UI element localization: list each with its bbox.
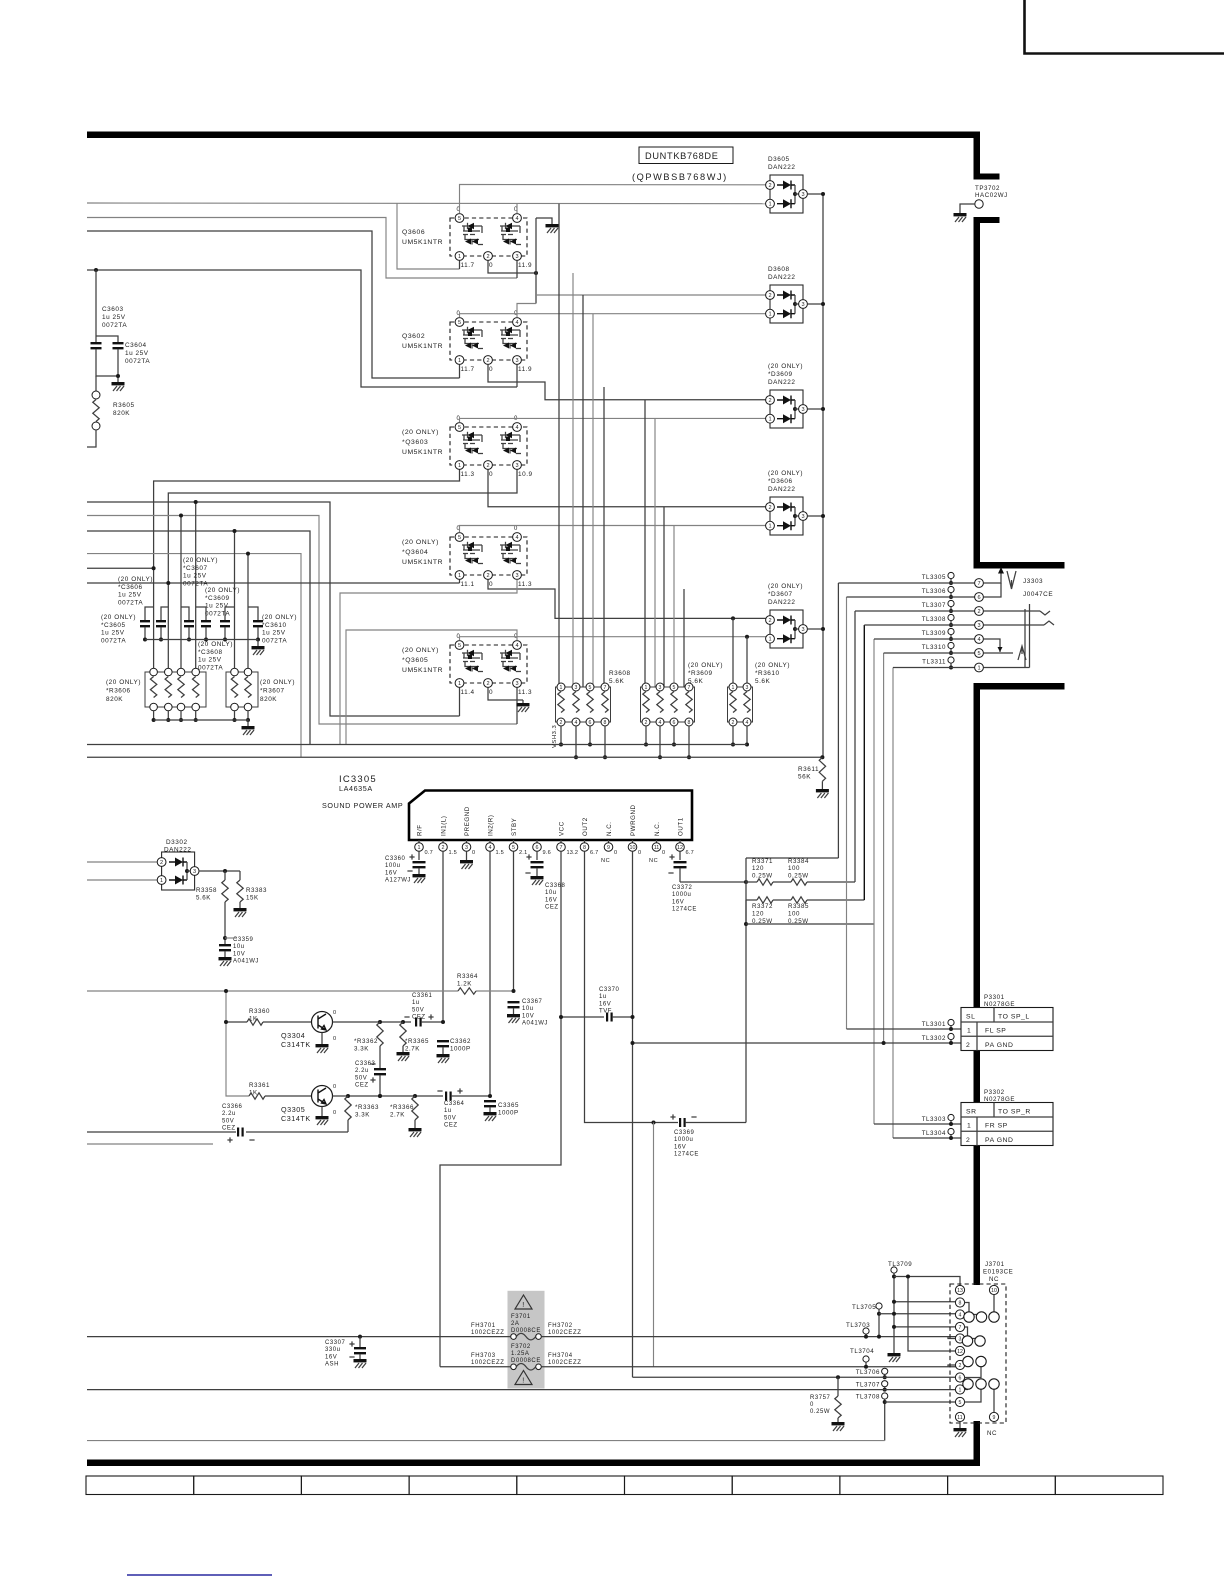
svg-text:TL3305: TL3305 [922,574,946,581]
svg-text:TL3303: TL3303 [922,1116,946,1123]
svg-text:4: 4 [746,720,749,726]
wire mid H [87,554,301,758]
svg-text:1: 1 [458,254,461,260]
svg-text:J0047CE: J0047CE [1023,591,1053,598]
fuse panel background [508,1291,545,1389]
svg-text:TL3707: TL3707 [856,1381,880,1388]
svg-text:50V: 50V [412,1007,424,1013]
svg-text:330u: 330u [325,1347,341,1353]
ground IC pin3 PREGND [466,851,468,860]
svg-text:DAN222: DAN222 [768,379,795,386]
svg-text:2: 2 [560,720,563,726]
svg-text:UM5K1NTR: UM5K1NTR [402,343,443,350]
svg-text:PA GND: PA GND [985,1042,1013,1049]
wire Q3606 pin1 down [459,261,461,270]
svg-text:FH3703: FH3703 [471,1353,496,1359]
svg-text:R3384: R3384 [788,858,809,865]
svg-text:5: 5 [512,845,515,851]
svg-text:CEZ: CEZ [545,905,559,911]
svg-text:2: 2 [645,720,648,726]
svg-text:2.2u: 2.2u [355,1068,369,1074]
svg-text:820K: 820K [113,410,130,417]
capacitor C3368 [536,851,538,860]
svg-text:1: 1 [458,573,461,579]
wire array pin down x=646 [645,726,647,745]
svg-text:*C3608: *C3608 [198,649,223,656]
svg-text:3: 3 [193,869,196,875]
svg-text:TL3708: TL3708 [856,1394,880,1401]
wire OUT1 node [680,881,746,883]
svg-text:0072TA: 0072TA [205,610,230,617]
wire to J3701 pin8 [894,1301,956,1303]
svg-text:3: 3 [801,192,804,198]
svg-text:UM5K1NTR: UM5K1NTR [402,667,443,674]
svg-text:8: 8 [688,720,691,726]
wire to J3303 pin 7 [838,582,974,584]
svg-text:C3365: C3365 [498,1102,519,1109]
svg-text:TP3702: TP3702 [975,185,1000,192]
wire to J3701 pin4 [879,1313,956,1315]
wire net D [87,270,517,387]
svg-text:C3307: C3307 [325,1340,346,1346]
capacitor cluster cap 1 [145,607,154,620]
footer blue rule [127,1574,272,1576]
wire C3603 branch [95,270,97,342]
J3701 pin 5 [955,1397,964,1406]
wire to J3303 pin 2 [855,610,975,612]
wire to J3303 pin 6 [847,596,975,598]
wire P3301 pin2 PA GND [633,1042,962,1044]
svg-text:FH3702: FH3702 [548,1323,573,1329]
J3701 pin 10 [989,1285,998,1294]
svg-text:1: 1 [732,685,735,691]
svg-text:2: 2 [966,1042,970,1049]
svg-text:0: 0 [514,416,518,422]
svg-text:1000u: 1000u [674,1137,693,1143]
svg-text:4: 4 [515,425,518,431]
svg-text:5: 5 [458,535,461,541]
svg-text:*D3606: *D3606 [768,478,793,485]
ground Q3606 right [546,224,559,227]
wire to J3701 pin13 [894,1277,960,1286]
svg-text:*R3609: *R3609 [688,670,713,677]
svg-text:10.9: 10.9 [518,471,533,478]
svg-text:6: 6 [589,720,592,726]
svg-text:(20 ONLY): (20 ONLY) [755,662,790,669]
wire D pin3 to bus at y=194 [807,193,823,195]
svg-text:OUT2: OUT2 [582,817,589,836]
svg-text:5: 5 [589,685,592,691]
svg-text:*D3607: *D3607 [768,591,793,598]
svg-text:9: 9 [993,1415,996,1421]
border thick bottom bar [87,1460,980,1467]
svg-text:1u 25V: 1u 25V [198,657,222,664]
wire Q3603 pin5 up to D3609 pin1 [460,418,771,422]
svg-text:*Q3604: *Q3604 [402,549,428,556]
J3701 pin 12 [955,1346,964,1355]
diode D3608 [766,266,808,323]
svg-text:5: 5 [458,425,461,431]
svg-text:3: 3 [801,627,804,633]
svg-text:ASH: ASH [325,1362,339,1368]
svg-text:SOUND POWER AMP: SOUND POWER AMP [322,801,403,810]
wire Q3304 collector row [333,1021,412,1023]
svg-text:2: 2 [732,720,735,726]
border top-right corner box [1025,0,1224,54]
svg-text:*R3365: *R3365 [405,1038,429,1045]
svg-text:0072TA: 0072TA [118,599,143,606]
svg-text:16V: 16V [672,899,684,905]
svg-text:2A: 2A [511,1321,519,1327]
svg-text:C314TK: C314TK [281,1114,311,1123]
J3701 pin 7 [955,1322,964,1331]
svg-text:NC: NC [989,1276,999,1283]
wire Q3304 base row [225,991,227,1022]
svg-text:15K: 15K [246,894,259,901]
svg-text:1: 1 [768,637,771,643]
svg-text:2.7K: 2.7K [405,1045,420,1052]
svg-text:*Q3603: *Q3603 [402,439,428,446]
svg-text:C3361: C3361 [412,993,433,999]
svg-text:0072TA: 0072TA [102,322,127,329]
wire IC pin10 PWRGND down [632,851,634,1377]
svg-text:2: 2 [486,358,489,364]
svg-text:R/F: R/F [417,824,424,836]
wire IC pin5 down [513,851,515,991]
capacitor cluster cap 4 [196,607,206,620]
svg-text:DAN222: DAN222 [768,599,795,606]
svg-text:2: 2 [768,398,771,404]
svg-text:50V: 50V [222,1118,234,1124]
svg-text:0072TA: 0072TA [101,637,126,644]
svg-text:(20 ONLY): (20 ONLY) [262,614,297,621]
svg-text:R3757: R3757 [810,1395,831,1401]
svg-text:(20 ONLY): (20 ONLY) [118,576,153,583]
svg-text:(20 ONLY): (20 ONLY) [205,587,240,594]
connector J3701 [950,1261,1013,1437]
svg-text:Q3602: Q3602 [402,333,425,340]
svg-text:UM5K1NTR: UM5K1NTR [402,559,443,566]
svg-text:2: 2 [768,183,771,189]
wire Q3605 pin4 up left [346,630,517,745]
capacitor cluster cap 3 [181,607,189,620]
svg-text:11: 11 [957,1415,962,1421]
svg-text:*C3609: *C3609 [205,595,230,602]
svg-text:12: 12 [677,845,683,851]
svg-text:0: 0 [514,526,518,532]
svg-text:P3301: P3301 [984,994,1005,1001]
border thick right bar upper [974,132,981,180]
svg-text:0072TA: 0072TA [198,664,223,671]
diode D3607 [766,583,808,648]
svg-text:4: 4 [575,720,578,726]
svg-text:1: 1 [418,845,421,851]
wire IC pin2 down [442,851,444,1022]
J3701 pin 1 [955,1385,964,1394]
svg-text:(20 ONLY): (20 ONLY) [402,539,439,546]
svg-text:SL: SL [966,1014,975,1021]
svg-text:C314TK: C314TK [281,1040,311,1049]
svg-text:(20 ONLY): (20 ONLY) [768,470,803,477]
svg-text:C3362: C3362 [450,1038,471,1045]
svg-text:A041WJ: A041WJ [522,1021,548,1027]
svg-text:*R3607: *R3607 [260,688,285,695]
svg-text:2: 2 [486,254,489,260]
wire bundle v6 [883,653,885,1043]
svg-text:2: 2 [966,1137,970,1144]
wire D pin3 to bus at y=516 [807,515,823,517]
svg-text:HAC02WJ: HAC02WJ [975,192,1008,199]
svg-text:11.7: 11.7 [461,366,475,373]
svg-text:16V: 16V [325,1354,337,1360]
svg-text:VSH3.3: VSH3.3 [552,725,558,748]
svg-text:D3605: D3605 [768,156,790,163]
ground R3611 [816,789,829,792]
svg-text:C3360: C3360 [385,856,406,862]
wire lower-left rail 1 [87,1131,236,1133]
wire TL3707 row (long) to pin1 [87,1389,956,1391]
J3701 pin 4 [955,1310,964,1319]
svg-text:5: 5 [977,651,980,657]
svg-text:10u: 10u [522,1006,534,1012]
svg-text:Q3305: Q3305 [281,1105,305,1114]
wire to J3701 pin7 [894,1326,956,1328]
svg-text:CEZ: CEZ [444,1123,458,1129]
svg-text:10V: 10V [233,951,245,957]
wire mid F [87,516,517,725]
svg-text:1000P: 1000P [450,1045,471,1052]
wire bundle v7 [892,668,894,1139]
svg-text:4: 4 [977,637,980,643]
svg-text:5: 5 [959,1400,962,1406]
svg-text:3: 3 [515,463,518,469]
svg-text:5: 5 [673,685,676,691]
svg-text:820K: 820K [260,696,277,703]
wire to J3303 pin 1 [893,667,975,669]
J3701 pin 6 [955,1373,964,1382]
J3303 jack body [1025,604,1030,668]
wire Q3602 pin3 down [516,365,518,388]
svg-text:J3303: J3303 [1023,578,1043,585]
svg-text:C3603: C3603 [102,306,124,313]
svg-text:DAN222: DAN222 [768,274,795,281]
J3701 pin 3 [955,1334,964,1343]
svg-text:*R3610: *R3610 [755,670,780,677]
svg-text:R3611: R3611 [798,766,819,773]
svg-text:50V: 50V [355,1075,367,1081]
svg-text:C3366: C3366 [222,1104,243,1110]
wire IC pin7 VCC down [440,851,561,1367]
svg-text:3: 3 [515,681,518,687]
svg-text:0: 0 [472,850,475,856]
svg-text:1.5: 1.5 [449,850,457,856]
wire TL3706 row to pin6 [633,1376,956,1378]
svg-text:5: 5 [458,643,461,649]
svg-text:1002CEZZ: 1002CEZZ [471,1360,504,1366]
wire fuse rail 2 [440,1366,511,1368]
warning triangle top [515,1295,532,1309]
svg-text:12: 12 [957,1349,963,1355]
svg-text:2.2u: 2.2u [222,1111,236,1117]
wire mid G [87,531,310,745]
svg-text:N.C.: N.C. [654,821,661,836]
svg-text:D3608: D3608 [768,266,790,273]
title box DUNTKB768DE [639,147,733,164]
svg-text:0: 0 [614,850,617,856]
svg-text:10u: 10u [545,890,557,896]
svg-text:Q3606: Q3606 [402,229,425,236]
wire Q3603 pin3 long left [168,465,517,672]
svg-text:8: 8 [604,720,607,726]
wire to D3608 pin2 [536,294,770,296]
wire Q3604 pin5 up to D3606 pin1 [460,526,771,533]
svg-text:R3608: R3608 [609,670,631,677]
svg-text:1002CEZZ: 1002CEZZ [548,1330,581,1336]
svg-text:5.6K: 5.6K [196,894,211,901]
svg-text:IN1(L): IN1(L) [441,816,448,837]
wire to J3303 pin 3 [864,624,974,626]
svg-text:0.25W: 0.25W [788,872,809,879]
svg-text:(20 ONLY): (20 ONLY) [402,429,439,436]
svg-text:0: 0 [489,366,493,373]
wire mid E [87,502,460,716]
svg-text:1.2K: 1.2K [457,980,472,987]
wire Q3604 pin3 down left [340,580,517,745]
svg-text:1: 1 [967,1123,971,1130]
wire R3372 left node [745,900,747,924]
svg-text:UM5K1NTR: UM5K1NTR [402,239,443,246]
svg-text:(20 ONLY): (20 ONLY) [260,679,295,686]
svg-text:5.6K: 5.6K [755,678,771,685]
svg-text:7: 7 [959,1325,962,1331]
svg-text:TL3304: TL3304 [922,1130,946,1137]
svg-text:R3371: R3371 [752,858,773,865]
svg-text:2: 2 [160,860,163,866]
border thick right bar segment 2 [974,217,1000,223]
wire array pin down x=576 [575,726,577,757]
svg-text:PWRGND: PWRGND [630,805,637,837]
svg-text:0: 0 [489,471,493,478]
wire Q3606 pin4 up [516,204,518,214]
svg-text:DAN222: DAN222 [768,164,795,171]
svg-text:NC: NC [601,858,610,864]
wire array pin down x=674 [673,726,675,745]
wire Q3605 pin2 down [488,688,523,701]
svg-text:1002CEZZ: 1002CEZZ [548,1360,581,1366]
transistor Q3605 [402,634,532,696]
svg-text:2: 2 [768,618,771,624]
wire P3302 pin1 [874,1123,961,1125]
svg-text:3: 3 [515,358,518,364]
svg-text:*C3607: *C3607 [183,565,208,572]
svg-text:R3361: R3361 [249,1082,270,1089]
svg-text:N.C.: N.C. [606,821,613,836]
svg-text:C3367: C3367 [522,999,543,1005]
wire bus vertical group2 1 [644,400,646,687]
svg-text:0072TA: 0072TA [125,358,150,365]
svg-text:(20 ONLY): (20 ONLY) [101,614,136,621]
svg-text:C3372: C3372 [672,885,693,891]
svg-text:FR SP: FR SP [985,1123,1008,1130]
svg-text:TL3311: TL3311 [922,659,946,666]
wire bus VSH3.3 [87,744,747,746]
svg-text:1002CEZZ: 1002CEZZ [471,1330,504,1336]
capacitor C3307 [358,1335,362,1339]
svg-text:*R3363: *R3363 [355,1104,379,1111]
transistor Q3606 [402,207,532,269]
svg-text:0: 0 [489,689,493,696]
svg-text:6: 6 [977,595,980,601]
svg-text:(20 ONLY): (20 ONLY) [402,647,439,654]
svg-text:FL SP: FL SP [985,1028,1006,1035]
svg-text:1u: 1u [444,1108,452,1114]
wire bundle v4 [863,625,865,900]
svg-text:FH3704: FH3704 [548,1353,573,1359]
ground R3383 [234,908,247,911]
svg-text:2: 2 [977,609,980,615]
svg-text:1: 1 [768,417,771,423]
svg-text:0: 0 [638,850,641,856]
diode D3609 [766,363,808,428]
svg-text:100: 100 [788,910,800,917]
wire IC pin4 down [489,851,491,1096]
svg-text:2.7K: 2.7K [390,1111,405,1118]
wire Q3604 pin1 down [459,580,461,584]
svg-text:*R3366: *R3366 [390,1104,414,1111]
svg-text:1: 1 [458,463,461,469]
svg-text:C3368: C3368 [545,883,566,889]
svg-text:120: 120 [752,865,764,872]
svg-text:56K: 56K [798,774,811,781]
resistor array R3610 [728,662,791,726]
wire Q3605 pin5 up to D3607 pin1 [460,637,771,641]
wire bundle v1 [837,583,839,858]
svg-text:SR: SR [966,1109,977,1116]
svg-text:2: 2 [486,681,489,687]
svg-text:2: 2 [442,845,445,851]
svg-text:D3302: D3302 [166,839,188,846]
wire diode output bus [822,194,824,757]
svg-text:0: 0 [810,1402,814,1408]
svg-text:Q3304: Q3304 [281,1031,305,1040]
ground Q3605 area [522,700,524,703]
capacitor C3360 [418,851,420,860]
junction dots on D3607 feed [731,616,735,620]
wire Q3602 pin1 down [459,365,461,379]
wire net A top [87,202,770,205]
svg-text:3.3K: 3.3K [355,1111,370,1118]
svg-text:6.7: 6.7 [590,850,598,856]
wire Q3606 pin3 down [516,261,518,279]
wire bus vertical group2 3 [663,507,665,687]
wire Q3305 base row [226,1022,249,1096]
J3701 pin 9 [989,1412,998,1421]
svg-text:11.4: 11.4 [461,689,475,696]
svg-text:OUT1: OUT1 [678,817,685,836]
svg-text:TL3704: TL3704 [850,1348,874,1355]
svg-text:5: 5 [458,320,461,326]
svg-text:7: 7 [560,845,563,851]
svg-text:(20 ONLY): (20 ONLY) [106,679,141,686]
capacitor cluster cap 5 [225,607,235,620]
wire array pin down x=590 [589,726,591,745]
svg-text:F3702: F3702 [511,1344,531,1350]
ground J3701 pin11 [959,1422,961,1428]
svg-text:16V: 16V [545,897,557,903]
svg-text:10u: 10u [233,944,245,950]
wire C3369 branch down [653,1123,655,1367]
svg-text:1: 1 [160,878,163,884]
